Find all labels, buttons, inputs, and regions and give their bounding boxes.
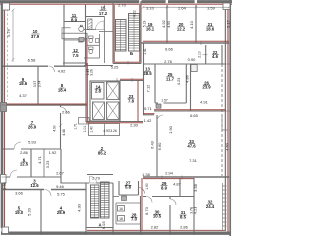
red stairs B bottom — [114, 61, 140, 63]
svg-text:4.93: 4.93 — [103, 129, 110, 133]
svg-text:4.86: 4.86 — [185, 74, 190, 83]
svg-text:4.37: 4.37 — [19, 93, 28, 98]
outer right wall inner face — [224, 4, 226, 231]
stairs B flight left — [116, 14, 140, 52]
svg-text:1.71: 1.71 — [74, 123, 78, 130]
room33 west wall — [156, 115, 158, 177]
svg-text:1.01: 1.01 — [83, 126, 87, 133]
svg-text:4.92: 4.92 — [58, 69, 67, 74]
stairs A left wall — [85, 183, 87, 233]
outer right wall outer face — [229, 0, 231, 236]
room 22 west wall — [205, 45, 207, 64]
svg-text:9.46: 9.46 — [56, 184, 65, 189]
wall room 7 bottom — [3, 148, 61, 150]
room 25 left wall — [154, 64, 156, 103]
elevator core outline — [90, 81, 120, 121]
shaft between 25 and 26 — [191, 65, 197, 72]
red under core — [86, 122, 143, 124]
closet east wall — [60, 149, 62, 184]
wall rooms 5/4 top — [3, 189, 86, 191]
wc cubicle wall — [99, 34, 101, 58]
red room23 right — [137, 80, 139, 122]
stairs B bottom wall — [113, 63, 141, 65]
outer right red line — [227, 2, 229, 234]
svg-text:5.25: 5.25 — [111, 64, 120, 69]
svg-text:8.73: 8.73 — [144, 206, 149, 215]
left inner dashed face — [6, 9, 8, 100]
red wall right of room12 — [86, 38, 88, 66]
svg-text:5.76: 5.76 — [6, 28, 11, 37]
stairs B left wall — [112, 1, 114, 64]
wall room12 bottom — [63, 62, 85, 64]
svg-text:2.66: 2.66 — [62, 110, 71, 115]
red room26 bottom — [154, 109, 226, 111]
svg-text:4.93: 4.93 — [167, 21, 171, 28]
rooms 29/30-31 divider horizontal — [143, 196, 194, 198]
room 33 bottom wall — [143, 176, 229, 178]
wall room7|room2 — [60, 105, 62, 149]
red bottom-right vertical — [141, 178, 143, 231]
red rooms 8/9 bottom — [3, 103, 87, 105]
room15 bottom — [85, 16, 105, 18]
svg-text:6.58: 6.58 — [28, 58, 37, 63]
outer left red line — [4, 4, 6, 228]
svg-text:16.1: 16.1 — [146, 27, 155, 32]
svg-text:24.4: 24.4 — [206, 204, 215, 209]
fraction bars under room numbers — [17, 10, 219, 217]
svg-text:18.6: 18.6 — [19, 81, 28, 86]
wall room10|11 — [63, 5, 65, 66]
door arcs — [10, 21, 176, 205]
corridor wall over stairs side — [99, 31, 113, 33]
wall above room3 east part — [61, 182, 86, 184]
svg-text:2.67: 2.67 — [56, 170, 65, 175]
dimension texts — [15, 3, 216, 230]
room 26 bottom wall grey — [154, 110, 226, 112]
svg-text:4.87: 4.87 — [173, 182, 182, 187]
svg-text:1.92: 1.92 — [49, 150, 58, 155]
room labels — [15, 5, 219, 227]
stairs B right wall — [140, 1, 142, 64]
wall room9|8 — [37, 66, 39, 105]
stairs A right wall — [112, 183, 114, 233]
svg-text:3.78: 3.78 — [189, 207, 193, 214]
room 31|32 wall — [193, 178, 195, 232]
tick room7 wall — [59, 124, 62, 127]
outer bottom wall — [1, 231, 231, 234]
svg-text:2.30: 2.30 — [130, 123, 139, 128]
room 28 walls — [116, 203, 140, 224]
red room 33 bottom edge — [143, 178, 194, 180]
kitchen counter room11 — [62, 33, 87, 39]
svg-text:3.66: 3.66 — [15, 190, 24, 195]
svg-text:2.64: 2.64 — [178, 6, 187, 11]
svg-text:4.23: 4.23 — [176, 77, 181, 86]
svg-text:7.8: 7.8 — [128, 99, 135, 104]
svg-text:18.4: 18.4 — [58, 88, 67, 93]
svg-text:6.22: 6.22 — [133, 10, 137, 17]
svg-text:2.82: 2.82 — [151, 224, 160, 229]
svg-text:1.41: 1.41 — [143, 48, 147, 55]
wc corridor wall — [104, 17, 106, 64]
room 30|31 wall — [169, 196, 171, 232]
red stairs B right — [139, 5, 141, 63]
svg-text:4.90: 4.90 — [53, 125, 57, 132]
red lobby left — [86, 63, 88, 122]
stairs A flight left — [91, 182, 110, 218]
outer bottom red line — [87, 229, 225, 231]
svg-text:0.90: 0.90 — [188, 57, 197, 62]
room 28 right wall — [140, 196, 142, 232]
outer top wall — [0, 0, 232, 3]
lift number boxes bottom — [118, 206, 125, 222]
wall room5|4 — [40, 189, 42, 232]
outer top red line — [0, 3, 232, 5]
svg-text:3.59: 3.59 — [207, 6, 216, 11]
dimension helper lines — [2, 5, 231, 236]
svg-text:5.75: 5.75 — [57, 192, 66, 197]
svg-text:15: 15 — [101, 5, 106, 10]
closet wall a — [30, 149, 32, 177]
svg-text:4.71: 4.71 — [37, 155, 42, 164]
svg-text:7.5: 7.5 — [73, 53, 80, 58]
dim line top rooms19-21 — [143, 6, 229, 8]
svg-text:3.10: 3.10 — [146, 6, 155, 11]
svg-text:12.2: 12.2 — [177, 27, 186, 32]
svg-text:6.03: 6.03 — [101, 221, 106, 230]
corridor step wall room33 — [143, 114, 154, 116]
svg-text:37.9: 37.9 — [31, 34, 40, 39]
svg-text:7.31: 7.31 — [189, 158, 198, 163]
svg-text:3.58: 3.58 — [193, 183, 198, 192]
room 22 east wall — [221, 45, 223, 64]
svg-text:1.57: 1.57 — [161, 99, 168, 103]
svg-text:4.30: 4.30 — [77, 203, 82, 212]
svg-text:3.26: 3.26 — [90, 69, 94, 76]
toilet 2 — [89, 47, 94, 50]
svg-text:26.9: 26.9 — [28, 125, 37, 130]
kitchen sink round — [79, 26, 84, 31]
svg-text:5.17: 5.17 — [225, 19, 230, 28]
wall above stairs A — [86, 182, 113, 184]
svg-text:3.26: 3.26 — [110, 129, 117, 133]
svg-text:1.38: 1.38 — [142, 172, 151, 177]
ticks top wall left part — [64, 5, 105, 9]
svg-text:1.42: 1.42 — [144, 118, 153, 123]
elevator X crosses — [93, 82, 120, 120]
ticks wall y177 bottom right — [117, 42, 208, 208]
svg-text:4.91: 4.91 — [200, 100, 209, 105]
svg-text:7.12: 7.12 — [146, 84, 151, 93]
red room23 top — [120, 78, 143, 80]
svg-text:1.33: 1.33 — [2, 181, 7, 190]
ticks right wall — [226, 43, 230, 177]
counter stub — [79, 39, 83, 42]
svg-text:4.48: 4.48 — [62, 129, 66, 136]
svg-text:16: 16 — [119, 207, 123, 211]
rooms 25/26 top wall — [143, 63, 226, 65]
svg-text:2.86: 2.86 — [180, 224, 189, 229]
wall right of rooms 11/12 — [85, 5, 87, 66]
svg-text:5.19: 5.19 — [143, 21, 147, 28]
red stairs B left — [113, 5, 115, 63]
svg-text:6.65: 6.65 — [190, 113, 199, 118]
toilet 1 — [89, 36, 94, 39]
wall room11 bottom — [64, 21, 85, 23]
room 27 box — [119, 181, 139, 195]
ticks left wall — [2, 66, 6, 189]
svg-text:4.92: 4.92 — [161, 19, 166, 28]
room 25 right wall — [185, 64, 187, 103]
svg-text:5.93: 5.93 — [28, 140, 37, 145]
svg-text:6.43: 6.43 — [150, 140, 155, 149]
bottom-right room 29 right wall — [179, 178, 181, 196]
wall room12 top — [64, 39, 85, 41]
outer left wall — [1, 1, 4, 228]
svg-text:17.2: 17.2 — [99, 11, 108, 16]
wc upper wall — [84, 29, 96, 31]
svg-text:85.2: 85.2 — [98, 151, 107, 156]
svg-text:3.74: 3.74 — [37, 81, 41, 88]
wc block bottom wall — [84, 65, 113, 67]
svg-text:8.9: 8.9 — [161, 185, 168, 190]
room 23 top wall — [120, 80, 143, 82]
svg-text:1.90: 1.90 — [145, 183, 149, 190]
corridor 13 left wall — [143, 43, 145, 115]
ticks bottom wall — [41, 231, 194, 235]
room 25 bottom wall — [155, 102, 186, 104]
wall rooms 20|21 — [195, 5, 197, 43]
svg-text:47.6: 47.6 — [187, 143, 196, 148]
lift shaft BR box — [107, 102, 120, 120]
svg-text:2.10: 2.10 — [198, 51, 202, 58]
wall rooms 19-21 bottom — [141, 42, 229, 44]
room 26 left wall — [190, 64, 192, 111]
top wall window notches — [139, 0, 197, 3]
room 14 box — [92, 83, 105, 100]
wall rooms 10/9/8 top — [3, 65, 86, 67]
svg-text:18.6: 18.6 — [206, 27, 215, 32]
svg-text:3.23: 3.23 — [45, 160, 50, 169]
wall rooms 19|20 — [166, 5, 168, 43]
svg-text:1.90: 1.90 — [168, 125, 173, 134]
dim line 5.76 room10 — [12, 10, 14, 62]
wc cubicle west wall — [86, 34, 88, 58]
kitchen partition — [62, 28, 71, 33]
stairs A bottom wall — [86, 227, 113, 229]
svg-text:2.86: 2.86 — [20, 150, 29, 155]
room 23 bottom / core bottom — [86, 121, 143, 123]
svg-text:2.79: 2.79 — [92, 176, 101, 181]
wall rooms 9/8 bottom — [3, 104, 87, 106]
lift shaft TR box — [107, 82, 120, 100]
room 33 right dashed loggia line — [221, 64, 223, 176]
svg-text:1.40: 1.40 — [90, 126, 94, 133]
stairs B flight right — [129, 14, 140, 52]
svg-text:Б: Б — [130, 51, 133, 56]
red corridor step wall — [143, 113, 155, 115]
pilasters / corner blocks — [1, 3, 231, 234]
wc cubicle bottom — [84, 57, 100, 59]
red top of corridor 13 — [143, 40, 229, 42]
svg-text:4.10: 4.10 — [189, 20, 194, 29]
svg-text:6.66: 6.66 — [165, 47, 174, 52]
bathroom fixtures top — [62, 25, 99, 54]
closet below core — [89, 124, 120, 136]
stairs A flight right — [101, 182, 110, 218]
svg-text:2.94: 2.94 — [165, 171, 174, 176]
lobby wall right of stairsA — [113, 196, 119, 198]
closet wall b — [43, 149, 45, 177]
closets bottom wall — [3, 176, 61, 178]
svg-text:2.70: 2.70 — [118, 3, 127, 8]
wc cubicle divider — [87, 44, 100, 46]
svg-text:12.6: 12.6 — [30, 183, 39, 188]
svg-text:11.7: 11.7 — [166, 77, 175, 82]
svg-text:2.76: 2.76 — [164, 59, 173, 64]
balcony hatch right bottom — [222, 115, 228, 231]
svg-text:4.60: 4.60 — [225, 142, 230, 151]
hatched vent shafts — [79, 19, 161, 201]
stairs A landing wall — [87, 174, 113, 176]
closet right of room7 — [79, 118, 90, 125]
lift shaft BL box — [93, 102, 105, 120]
left wall of lift lobby — [85, 63, 87, 122]
svg-text:18: 18 — [119, 217, 123, 221]
svg-text:5.71: 5.71 — [144, 106, 153, 111]
rotated dimension texts — [2, 10, 230, 229]
svg-text:6.60: 6.60 — [157, 142, 162, 151]
svg-text:5.20: 5.20 — [27, 207, 32, 216]
